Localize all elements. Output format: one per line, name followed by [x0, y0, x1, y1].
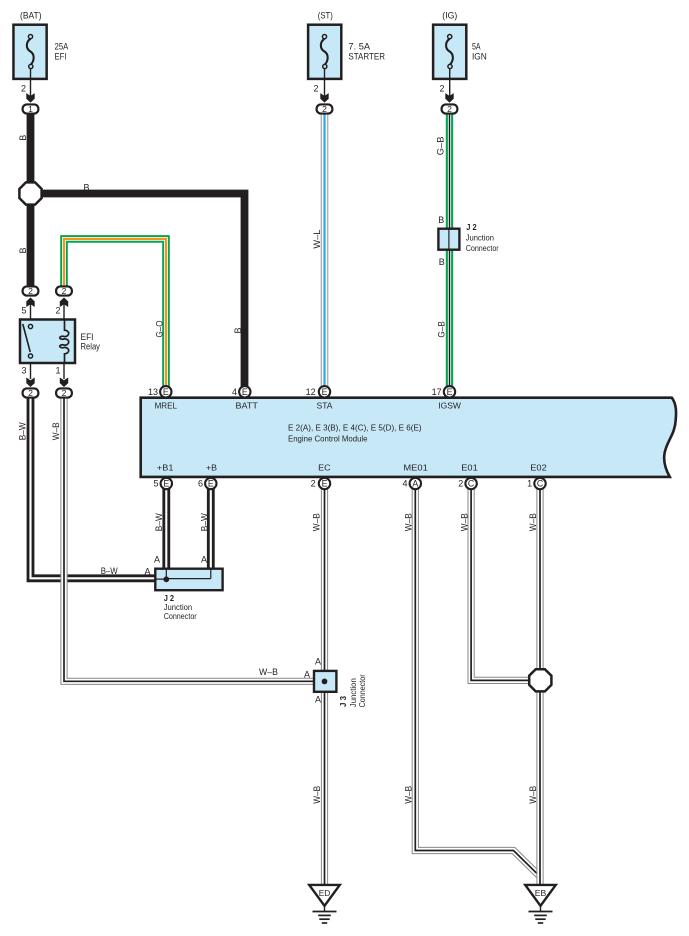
- J2 internal bus lines: [155, 569, 211, 579]
- svg-text:+B: +B: [206, 463, 217, 473]
- svg-text:E: E: [447, 387, 453, 397]
- wire W-B ECM E01 pin 2(C) to splice octagon: [471, 483, 540, 680]
- svg-text:A: A: [144, 567, 150, 577]
- ECM box body with torn right edge: [141, 398, 676, 477]
- svg-text:BATT: BATT: [236, 401, 258, 411]
- stems relay bottom: [31, 363, 65, 379]
- svg-text:12: 12: [306, 387, 316, 397]
- ground triangle ED: [309, 885, 340, 906]
- relay box body: [20, 320, 75, 364]
- svg-text:6: 6: [198, 478, 203, 488]
- J2 junction connector (B-W bus): [155, 569, 222, 621]
- svg-text:E: E: [322, 479, 328, 489]
- junction dot: [163, 576, 169, 582]
- wire W-B relay pin 1 to J3 junction connector: [64, 393, 314, 681]
- ECM Engine Control Module box: [141, 386, 676, 489]
- wire B-W ECM +B pin 6(E) to J2: [207, 483, 215, 578]
- wire W-B ECM EC pin 2(E) through J3 to ground ED: [321, 483, 328, 885]
- ground ED: [309, 885, 340, 923]
- svg-text:2: 2: [447, 104, 452, 114]
- svg-text:C: C: [468, 479, 475, 489]
- svg-text:E: E: [322, 387, 328, 397]
- svg-text:E02: E02: [530, 463, 547, 473]
- svg-text:A: A: [315, 695, 321, 705]
- connector oval 2 below pin 1: [56, 388, 72, 397]
- wire G-O relay pin 2 to MREL pin 13(E): [64, 239, 166, 390]
- stem fuse BAT pin 2: [30, 69, 32, 97]
- svg-text:J 3: J 3: [338, 696, 348, 707]
- svg-text:2: 2: [28, 286, 33, 296]
- fuse element symbol: [321, 39, 328, 65]
- wire B-W relay pin 3 to J2 junction connector: [31, 393, 156, 578]
- svg-text:B–W: B–W: [199, 513, 209, 531]
- svg-text:G–B: G–B: [435, 137, 445, 156]
- svg-text:W–B: W–B: [312, 786, 322, 804]
- svg-text:25A: 25A: [55, 42, 69, 52]
- arrow up pin 5: [26, 298, 34, 308]
- svg-text:Relay: Relay: [81, 342, 101, 352]
- svg-text:2: 2: [313, 83, 318, 93]
- svg-text:7. 5A: 7. 5A: [348, 42, 370, 52]
- svg-text:W–L: W–L: [312, 230, 322, 249]
- fuse body IGN 5A: [433, 25, 466, 79]
- svg-text:EC: EC: [318, 463, 331, 473]
- svg-text:Connector: Connector: [466, 243, 499, 253]
- svg-text:IGSW: IGSW: [438, 401, 461, 411]
- svg-text:EFI: EFI: [81, 332, 94, 342]
- splice octagon W-B: [529, 669, 551, 691]
- svg-text:E: E: [242, 387, 248, 397]
- svg-text:C: C: [537, 479, 544, 489]
- svg-text:B: B: [83, 182, 89, 192]
- svg-text:2: 2: [28, 388, 33, 398]
- ground triangle EB: [525, 885, 556, 906]
- svg-text:2: 2: [62, 388, 67, 398]
- svg-text:E01: E01: [461, 463, 478, 473]
- FUSE STARTER 7.5A (ST): [308, 10, 385, 114]
- svg-text:A: A: [154, 554, 160, 564]
- svg-text:G–B: G–B: [437, 321, 447, 337]
- junction dot: [322, 679, 328, 685]
- fuse element symbol: [446, 39, 453, 65]
- connector oval 2: [442, 104, 458, 113]
- svg-text:1: 1: [55, 365, 60, 375]
- svg-text:B–W: B–W: [18, 422, 28, 440]
- svg-text:E: E: [163, 387, 169, 397]
- fuse body STARTER 7.5A: [308, 25, 341, 79]
- svg-text:Connector: Connector: [357, 674, 367, 707]
- arrow into connector 2: [320, 93, 328, 103]
- svg-text:W–B: W–B: [528, 786, 538, 804]
- FUSE EFI 25A (BAT): [13, 10, 68, 114]
- svg-text:B: B: [438, 215, 444, 225]
- connector oval 1: [23, 104, 39, 113]
- svg-text:B–W: B–W: [154, 513, 164, 531]
- svg-text:Junction: Junction: [466, 232, 495, 242]
- stem fuse IG pin 2: [449, 69, 451, 97]
- connector oval 2 relay pin 2: [56, 286, 72, 295]
- wire B octagon to BATT pin 4(E): [31, 194, 245, 391]
- wire W-L fuse ST to STA pin 12(E): [321, 109, 329, 390]
- svg-text:2: 2: [458, 478, 463, 488]
- svg-text:EB: EB: [535, 888, 547, 898]
- svg-text:2: 2: [311, 478, 316, 488]
- svg-text:EFI: EFI: [55, 52, 67, 62]
- pin 12(E) STA: [319, 386, 330, 397]
- svg-text:B–W: B–W: [101, 566, 118, 576]
- stem fuse ST pin 2: [324, 69, 326, 97]
- junction connector J2 box (IG wire): [438, 229, 459, 250]
- svg-text:W–B: W–B: [259, 667, 278, 677]
- svg-text:1: 1: [28, 104, 33, 114]
- svg-text:Connector: Connector: [164, 611, 197, 621]
- svg-text:A: A: [412, 479, 418, 489]
- svg-text:(ST): (ST): [318, 10, 333, 20]
- svg-text:3: 3: [21, 365, 26, 375]
- svg-text:W–B: W–B: [312, 513, 322, 531]
- svg-text:W–B: W–B: [51, 422, 61, 440]
- svg-text:STA: STA: [317, 401, 333, 411]
- svg-text:STARTER: STARTER: [348, 52, 385, 62]
- svg-text:MREL: MREL: [155, 401, 178, 411]
- wire B-W ECM +B1 pin 5(E) to J2: [162, 483, 170, 580]
- pin 17(E) IGSW: [444, 386, 455, 397]
- J3 junction connector: [314, 671, 367, 708]
- svg-text:2: 2: [439, 83, 444, 93]
- wire B fuse BAT to splice octagon: [27, 109, 35, 194]
- splice octagon B: [19, 182, 41, 204]
- svg-text:E: E: [208, 479, 214, 489]
- svg-text:G–O: G–O: [154, 321, 164, 338]
- svg-text:5A: 5A: [472, 42, 481, 52]
- svg-text:J 2: J 2: [466, 222, 477, 232]
- svg-text:B: B: [439, 257, 445, 267]
- arrow into connector 1: [26, 93, 34, 103]
- svg-text:B: B: [18, 247, 28, 253]
- svg-text:1: 1: [527, 478, 532, 488]
- switch blade: [23, 324, 30, 352]
- connector oval 2: [317, 104, 333, 113]
- fuse body EFI 25A: [13, 25, 46, 79]
- pin 13(E) MREL: [160, 386, 171, 397]
- wire W-B ECM ME01 pin 4(A) to ground EB: [415, 483, 540, 877]
- arrow up pin 2: [60, 298, 68, 308]
- svg-text:2: 2: [21, 83, 26, 93]
- svg-text:B: B: [233, 327, 243, 333]
- svg-text:E: E: [163, 479, 169, 489]
- svg-text:13: 13: [148, 387, 158, 397]
- svg-text:W–B: W–B: [404, 513, 414, 531]
- svg-text:W–B: W–B: [528, 513, 538, 531]
- svg-text:2: 2: [62, 286, 67, 296]
- EFI relay: [20, 286, 100, 398]
- svg-text:B: B: [18, 135, 28, 141]
- wire B octagon down to EFI relay pin 5: [27, 194, 35, 292]
- connector oval 2 below pin 3: [23, 388, 39, 397]
- relay coil: [60, 320, 69, 364]
- svg-text:17: 17: [432, 387, 442, 397]
- ground hatch ED: [324, 906, 326, 912]
- svg-text:Engine Control Module: Engine Control Module: [288, 435, 368, 444]
- svg-text:(IG): (IG): [442, 10, 457, 20]
- svg-text:4: 4: [232, 387, 237, 397]
- svg-text:A: A: [201, 554, 207, 564]
- junction connector J3 box: [314, 671, 336, 692]
- arrow down pin 1: [60, 378, 68, 388]
- svg-text:2: 2: [322, 104, 327, 114]
- J2 junction connector (IG wire): [438, 215, 499, 267]
- svg-text:E 2(A), E 3(B), E 4(C), E 5(D): E 2(A), E 3(B), E 4(C), E 5(D), E 6(E): [288, 423, 422, 433]
- ground EB: [525, 885, 556, 923]
- connector oval 2 relay pin 5: [23, 286, 39, 295]
- svg-text:W–B: W–B: [404, 786, 414, 804]
- svg-text:2: 2: [55, 305, 60, 315]
- ground hatch EB: [540, 906, 542, 912]
- FUSE IGN 5A (IG): [433, 10, 487, 114]
- J2 divider line: [448, 229, 450, 250]
- svg-text:ME01: ME01: [403, 463, 428, 473]
- arrow into connector 2: [445, 93, 453, 103]
- svg-text:5: 5: [153, 478, 158, 488]
- svg-text:A: A: [315, 657, 321, 667]
- svg-text:W–B: W–B: [459, 513, 469, 531]
- svg-text:4: 4: [402, 478, 407, 488]
- svg-text:(BAT): (BAT): [20, 10, 42, 20]
- svg-text:5: 5: [21, 305, 26, 315]
- svg-text:+B1: +B1: [157, 463, 174, 473]
- arrow down pin 3: [26, 378, 34, 388]
- svg-text:IGN: IGN: [472, 52, 487, 62]
- stems relay top: [31, 303, 65, 320]
- svg-text:A: A: [304, 670, 310, 680]
- fuse element symbol: [27, 39, 34, 65]
- pin 4(E) BATT: [239, 386, 250, 397]
- svg-text:ED: ED: [319, 888, 331, 898]
- wire G-B fuse IG to IGSW pin 17(E): [446, 109, 453, 390]
- wire W-B ECM E02 pin 1(C) to ground EB: [536, 483, 543, 885]
- junction connector J2 box (B-W bus): [155, 569, 222, 591]
